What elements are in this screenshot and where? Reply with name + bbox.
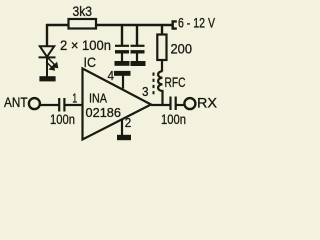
wire top supply rail [46,24,172,26]
svg-text:6 - 12 V: 6 - 12 V [178,16,215,31]
svg-text:02186: 02186 [86,105,122,120]
resistor R1 3k3 [69,19,97,29]
svg-text:1: 1 [72,91,77,106]
wire cap C1 stem [121,25,123,46]
terminal ANT [29,98,40,109]
wire cap C2 stem [136,25,138,46]
capacitor C3 100n [59,98,64,112]
terminal supply [173,21,177,28]
svg-text:100n: 100n [161,112,186,127]
ground C1 [115,61,130,66]
LED D1 [39,46,56,77]
ground pin 2 [117,135,131,140]
wire resistor R2 stem [161,25,163,35]
op-amp IC1 INA02186 triangle [83,69,152,140]
svg-text:4: 4 [108,68,115,83]
wire ANT to C3 [40,104,59,106]
svg-text:INA: INA [89,91,107,106]
wire pin 2 stem [121,120,123,136]
LED arrow 2 [46,62,54,70]
capacitor C4 100n [171,97,176,111]
terminal RX [184,98,195,109]
dashed line [153,73,155,96]
capacitor C2 100n [131,46,145,62]
wire output tip to C4 [151,104,170,106]
wire C3 to pin 1 [64,104,81,106]
ground LED [39,76,55,81]
resistor R2 200 [157,35,166,61]
wire LED branch from rail [46,24,48,47]
svg-text:2 × 100n: 2 × 100n [60,38,111,53]
capacitor C1 100n [115,46,129,62]
svg-text:IC: IC [84,55,97,70]
svg-text:2: 2 [125,115,132,130]
svg-text:3k3: 3k3 [73,4,93,19]
svg-text:RFC: RFC [165,75,186,90]
svg-text:3: 3 [142,84,149,99]
ground pin 4 [114,71,131,76]
svg-text:200: 200 [171,42,193,57]
svg-text:ANT: ANT [4,95,28,110]
svg-text:100n: 100n [50,112,75,127]
svg-text:RX: RX [197,96,217,111]
ground C2 [131,61,146,66]
inductor RFC [158,71,162,105]
LED arrow 1 [48,58,58,68]
wire pin 4 stem [122,76,124,89]
wire R2 to RFC [161,60,163,72]
wire C4 to RX [176,104,185,106]
